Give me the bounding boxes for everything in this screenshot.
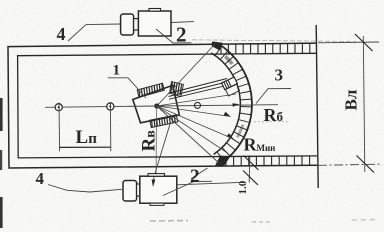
radiating line to bottom apex (157, 106, 220, 164)
fan sector band radial rungs (215, 46, 251, 160)
1.0 dimension slash tick bottom (243, 171, 258, 186)
Lп dimension extension line left (58, 103, 61, 152)
darker patch on arc band upper (225, 56, 232, 64)
1.0 dimension vertical line (248, 155, 251, 183)
bottom hatched band rungs (226, 156, 310, 166)
svg-text:Lп: Lп (76, 127, 98, 148)
top tractor cab box (138, 11, 171, 36)
small axis circle on centerline (195, 102, 201, 108)
fan sector inner arc (211, 53, 240, 154)
label 4 top leader (68, 25, 86, 41)
svg-text:1: 1 (113, 63, 121, 79)
darker patch on arc band lower (237, 125, 243, 138)
svg-text:4: 4 (57, 24, 66, 44)
inner boundary rectangle (18, 53, 317, 158)
faint dotted artifact under Rб (246, 121, 288, 124)
radiating line +27 deg (157, 106, 234, 139)
Lп dimension extension line right (109, 102, 111, 151)
svg-text:4: 4 (36, 169, 45, 188)
top tractor hitch (134, 19, 139, 30)
Rв radius line down to unloading point (154, 124, 170, 176)
label 1 leader with shelf (108, 78, 146, 98)
outer boundary rectangle (work area contour) (8, 43, 317, 168)
bucket pad on arc band (222, 77, 238, 90)
horizontal centerline through machine (45, 105, 278, 108)
machine upper crawler track (hatched pad) (137, 83, 164, 97)
bottom road line (48, 182, 244, 192)
bottom tractor cab box (140, 176, 177, 203)
boom base bracket (hatched block) (170, 82, 184, 97)
radiating line +40 deg (157, 106, 226, 152)
short diagonal below bottom apex (191, 168, 208, 179)
label 4 bottom leader (47, 184, 49, 186)
label 2 top leader (156, 29, 192, 43)
Вл top extension line (318, 41, 379, 44)
svg-text:Вл: Вл (342, 89, 361, 110)
arrowhead on centerline at inner arc (233, 103, 240, 107)
bucket lower flap (226, 84, 240, 96)
Вл dimension vertical line (363, 36, 365, 172)
top tractor trailer box (121, 14, 134, 35)
top hatched band rungs (221, 44, 310, 54)
1.0 dimension slash tick top (244, 156, 259, 171)
boom double lines to bucket (168, 79, 227, 94)
right edge vertical line (316, 25, 318, 188)
dark wedge at bottom apex of fan (216, 156, 230, 166)
bottom tractor bottom tab (150, 203, 164, 205)
bottom tractor trailer box (123, 181, 137, 202)
arrow into bottom tractor (unloading point) (153, 176, 154, 184)
radiating line +13 deg with arrow (157, 106, 231, 117)
machine lower crawler track (hatched pad) (150, 115, 178, 128)
left position node circle (55, 104, 62, 111)
machine pivot center dot (154, 103, 159, 108)
radiating line to top apex (157, 44, 216, 107)
right position node circle (107, 103, 114, 110)
top road line (86, 22, 194, 25)
Lп dimension line (59, 146, 110, 148)
bottom tractor hitch (137, 184, 140, 196)
label 2 bottom leader (163, 181, 212, 195)
machine body item 1 (rotated rectangle) (133, 85, 180, 123)
svg-text:2: 2 (176, 23, 187, 47)
Rв vertical extension line (155, 106, 157, 176)
svg-text:2: 2 (190, 166, 200, 187)
svg-text:3: 3 (275, 66, 284, 85)
dark wedge at top apex of fan (212, 42, 222, 50)
label 3 leader (256, 89, 291, 104)
Вл slash tick bottom (357, 156, 375, 173)
bottom tractor roof tab (148, 174, 165, 177)
Вл bottom extension line (chain) (318, 164, 381, 165)
Вл slash tick top (355, 34, 373, 51)
page edge dark marks (0, 98, 3, 131)
faint bottom text remnants (150, 220, 188, 223)
faint guideline right of top tractor (192, 40, 356, 42)
radiating line -8 deg (157, 94, 236, 106)
fan sector outer arc (217, 43, 252, 164)
top tractor roof tab (149, 9, 161, 12)
svg-text:1.0: 1.0 (237, 180, 249, 194)
